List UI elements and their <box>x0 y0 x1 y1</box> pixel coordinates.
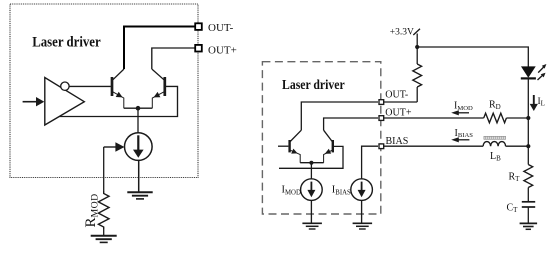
wire +3.3V down to node <box>416 34 418 48</box>
laser diode D1 <box>522 67 535 77</box>
resistor R_D <box>484 113 507 123</box>
svg-text:RMOD: RMOD <box>83 193 100 227</box>
node diode/R_D junction <box>526 116 530 120</box>
resistor R1 (pull-up) <box>413 64 422 87</box>
wire Q4 base loop <box>279 146 343 168</box>
wire I_MOD to ground <box>310 200 312 223</box>
svg-text:OUT-: OUT- <box>385 89 408 100</box>
buffer U1 (inverting driver) <box>45 78 85 126</box>
laser driver box (right, gray dashed) <box>262 62 380 214</box>
svg-text:IBIAS: IBIAS <box>455 128 474 139</box>
node emitter junction <box>136 106 141 111</box>
wire node to I_MOD source <box>310 163 312 179</box>
wire OUT+ to R_D <box>383 117 484 119</box>
laser driver box (left, dotted) <box>10 4 198 178</box>
wire C_T to ground <box>527 207 529 223</box>
input arrow <box>23 101 37 103</box>
capacitor C_T <box>522 202 535 207</box>
wire emitter node to current source <box>137 108 139 133</box>
bubble on buffer output <box>61 82 69 90</box>
terminal BIAS <box>379 144 384 149</box>
current source I_MOD <box>301 179 323 201</box>
wire R_MOD control drop <box>103 147 105 191</box>
wire R_D to node <box>506 117 528 119</box>
ground (under I_BIAS) <box>353 223 373 229</box>
inductor L_B <box>483 142 506 147</box>
terminal OUT+ (left schematic) <box>195 45 202 52</box>
current source I_BIAS <box>351 179 373 201</box>
wire BIAS net inside box <box>362 146 378 179</box>
wire OUT+ net (Q2 collector) <box>152 48 195 69</box>
svg-text:IMOD: IMOD <box>454 101 473 112</box>
wire node down to R_T <box>527 118 529 165</box>
transistor Q2 (right of diff pair) <box>152 69 165 108</box>
supply tick <box>413 29 420 35</box>
svg-text:OUT-: OUT- <box>208 22 234 34</box>
wire current source to ground <box>138 160 140 192</box>
control arrow into current source <box>104 146 117 148</box>
svg-text:RD: RD <box>489 100 501 112</box>
current source I1 <box>125 133 153 161</box>
terminal OUT+ (right schematic) <box>379 116 384 121</box>
arrow I_BIAS (current direction) <box>457 139 470 141</box>
light arrow 2 (lower) <box>538 75 543 80</box>
terminal OUT- (right schematic) <box>379 100 384 105</box>
svg-text:+3.3V: +3.3V <box>390 27 414 37</box>
resistor R_MOD <box>98 191 109 229</box>
wire OUT- terminal to resistor <box>383 101 417 103</box>
wire L_B to node <box>506 145 529 147</box>
wire BIAS to L_B <box>383 145 483 147</box>
arrow I_L <box>533 95 535 106</box>
transistor Q1 (left of diff pair) <box>112 69 124 108</box>
svg-text:IMOD: IMOD <box>282 185 301 197</box>
svg-text:CT: CT <box>507 203 519 215</box>
wire emitters join <box>300 162 323 164</box>
svg-text:RT: RT <box>509 172 521 184</box>
inductor core bar <box>484 136 506 139</box>
svg-text:Laser driver: Laser driver <box>282 78 345 93</box>
transistor Q4 <box>324 130 333 163</box>
wire buffer lower output to Q2 base loop <box>59 86 177 116</box>
wire supply to laser diode <box>417 47 528 67</box>
wire node to pull-up resistor <box>416 47 418 64</box>
svg-text:IBIAS: IBIAS <box>332 185 351 197</box>
svg-text:OUT+: OUT+ <box>208 44 237 56</box>
node emitter junction (right) <box>309 161 313 165</box>
light arrow 1 (upper) <box>538 67 543 73</box>
wire bubble to Q1 base <box>69 85 111 87</box>
node supply junction <box>415 45 419 49</box>
svg-text:LB: LB <box>490 151 501 163</box>
ground (under I_MOD) <box>302 223 322 229</box>
wire OUT- net (Q1 collector) <box>124 27 195 70</box>
node L_B junction <box>526 144 530 148</box>
wire resistor to OUT- <box>416 87 418 102</box>
ground (under current source) <box>127 192 152 199</box>
wire R_T to C_T <box>527 188 529 202</box>
wire OUT- net inside box <box>301 102 378 130</box>
terminal OUT- (left schematic) <box>195 23 202 30</box>
wire OUT+ net inside box <box>324 118 378 130</box>
arrow I_MOD (current direction) <box>457 112 470 114</box>
resistor R_T <box>524 165 533 188</box>
emitter join wire <box>124 107 153 109</box>
svg-text:IL: IL <box>538 97 545 108</box>
svg-text:Laser driver: Laser driver <box>32 34 101 50</box>
transistor Q3 <box>278 130 301 163</box>
svg-text:OUT+: OUT+ <box>385 107 412 118</box>
wire I_BIAS to ground <box>361 200 363 223</box>
wire R_MOD to ground <box>103 229 105 236</box>
wire diode cathode down <box>527 78 529 118</box>
svg-text:BIAS: BIAS <box>386 136 409 147</box>
ground (under C_T) <box>520 223 538 229</box>
ground (under R_MOD) <box>91 236 117 243</box>
